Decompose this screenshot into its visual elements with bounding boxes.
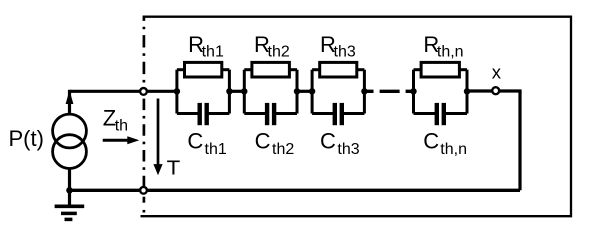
svg-text:th1: th1 — [202, 43, 224, 60]
svg-text:th2: th2 — [272, 141, 294, 158]
svg-text:th,n: th,n — [437, 43, 464, 60]
svg-text:C: C — [320, 129, 336, 154]
svg-text:x: x — [492, 62, 502, 83]
svg-text:th3: th3 — [334, 43, 356, 60]
svg-text:C: C — [255, 129, 271, 154]
svg-text:C: C — [423, 129, 439, 154]
svg-text:th,n: th,n — [440, 141, 467, 158]
svg-text:th2: th2 — [268, 43, 290, 60]
svg-text:C: C — [187, 129, 203, 154]
svg-text:th: th — [115, 118, 128, 135]
svg-text:P(t): P(t) — [9, 126, 44, 151]
svg-text:th1: th1 — [205, 141, 227, 158]
svg-text:T: T — [167, 158, 181, 180]
svg-text:th3: th3 — [337, 141, 359, 158]
